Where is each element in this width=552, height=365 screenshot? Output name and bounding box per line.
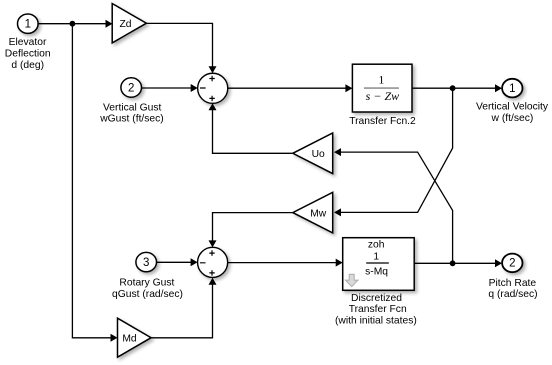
outport 2 Pitch Rate xyxy=(502,254,522,273)
sum Sum2 xyxy=(198,247,228,277)
svg-text:3: 3 xyxy=(143,257,149,269)
svg-text:2: 2 xyxy=(509,258,515,270)
wire Discretized Transfer Fcn to Out2 xyxy=(414,262,496,264)
wire Sum1 to Transfer Fcn.2 xyxy=(228,87,346,89)
svg-text:s-Mq: s-Mq xyxy=(365,266,388,277)
svg-text:zoh: zoh xyxy=(368,239,385,250)
svg-text:w (ft/sec): w (ft/sec) xyxy=(491,113,534,124)
svg-text:(with initial states): (with initial states) xyxy=(335,316,417,327)
wire In3 to Sum2 left xyxy=(157,261,192,263)
outport 1 Vertical Velocity xyxy=(502,79,522,98)
svg-text:Uo: Uo xyxy=(312,149,325,160)
wire Md to Sum2 bottom xyxy=(151,284,212,338)
svg-text:Mw: Mw xyxy=(310,208,327,219)
svg-text:d (deg): d (deg) xyxy=(11,60,44,71)
inport 1 Elevator Deflection xyxy=(18,14,39,33)
svg-text:s − Zw: s − Zw xyxy=(366,89,399,103)
gain Md xyxy=(118,318,152,357)
wire In2 to Sum1 left xyxy=(142,87,192,89)
svg-text:Md: Md xyxy=(122,334,137,345)
inport 2 Vertical Gust xyxy=(121,78,142,97)
icon initial-states arrow xyxy=(346,274,358,286)
svg-text:Vertical Gust: Vertical Gust xyxy=(103,103,162,114)
svg-text:Discretized: Discretized xyxy=(351,293,402,304)
wire q junction cross-up to Uo xyxy=(341,152,453,263)
svg-text:2: 2 xyxy=(128,82,134,94)
svg-text:Zd: Zd xyxy=(119,19,131,30)
svg-text:1: 1 xyxy=(509,83,515,95)
block Transfer Fcn.2 xyxy=(352,64,412,112)
svg-text:Transfer Fcn.2: Transfer Fcn.2 xyxy=(349,116,416,127)
gain Uo xyxy=(293,133,333,174)
svg-text:1: 1 xyxy=(378,72,384,86)
svg-text:Pitch Rate: Pitch Rate xyxy=(489,278,537,289)
sum Sum1 xyxy=(198,73,228,103)
svg-text:Rotary Gust: Rotary Gust xyxy=(119,277,174,288)
gain Zd xyxy=(112,4,146,43)
node junction at w output xyxy=(450,85,456,91)
svg-text:Transfer Fcn: Transfer Fcn xyxy=(349,304,407,315)
wire Mw to Sum2 top xyxy=(213,213,293,241)
gain Mw xyxy=(293,192,333,233)
svg-text:Elevator: Elevator xyxy=(9,37,47,48)
wire Uo to Sum1 bottom xyxy=(213,110,293,153)
node junction at q output xyxy=(450,260,456,266)
svg-text:wGust (ft/sec): wGust (ft/sec) xyxy=(99,114,164,125)
svg-text:Vertical Velocity: Vertical Velocity xyxy=(476,102,549,113)
wire w junction cross-down to Mw xyxy=(341,88,453,212)
wire Zd to Sum1 top xyxy=(146,23,212,67)
svg-text:Deflection: Deflection xyxy=(5,49,51,60)
wire Sum2 to Discretized Transfer Fcn xyxy=(228,262,337,264)
inport 3 Rotary Gust xyxy=(136,252,157,271)
svg-text:qGust (rad/sec): qGust (rad/sec) xyxy=(112,289,183,300)
svg-text:q (rad/sec): q (rad/sec) xyxy=(488,289,537,300)
node junction at In1 branch xyxy=(70,21,76,27)
wire In1 to Zd xyxy=(38,23,106,25)
block Discretized Transfer Fcn xyxy=(343,238,415,291)
svg-text:1: 1 xyxy=(373,252,379,263)
wire Transfer Fcn.2 to Out1 xyxy=(412,87,496,89)
wire In1 branch down to Md xyxy=(72,24,111,338)
svg-text:1: 1 xyxy=(25,19,31,31)
